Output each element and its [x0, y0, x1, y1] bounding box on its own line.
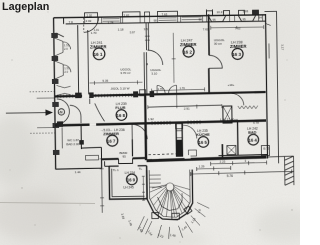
svg-text:3.5: 3.5 [144, 27, 149, 31]
svg-text:16 2: 16 2 [183, 50, 192, 55]
dim fan below bay right [178, 202, 209, 237]
stair inner well [166, 183, 174, 191]
lower block top stubs [109, 165, 146, 168]
svg-text:TL·1: TL·1 [113, 168, 119, 172]
window niche top A [209, 16, 226, 22]
dim row stairs right [197, 166, 231, 171]
leader line left 1 [30, 90, 55, 92]
room 168 circle [116, 110, 127, 121]
wall between room 161 and 162 [144, 23, 150, 95]
svg-text:7 8: 7 8 [69, 20, 74, 24]
door post corridor 2 [150, 91, 155, 97]
stair bay pilaster 3 [184, 206, 192, 214]
window top wall marks [85, 15, 263, 23]
svg-text:16 7: 16 7 [107, 139, 116, 144]
corridor dim ticks [148, 94, 222, 110]
left inner wall [78, 25, 79, 97]
small room post [79, 140, 84, 145]
stair hall left wall [144, 124, 147, 160]
bottom wall mid [102, 158, 147, 159]
door arc corridor up pair [157, 85, 177, 93]
svg-text:+10+: +10+ [227, 83, 234, 87]
svg-text:16 8: 16 8 [116, 113, 125, 118]
left wall pilaster 3 [52, 79, 59, 84]
dashed flight above stairs [148, 154, 178, 161]
svg-text:2.0: 2.0 [64, 70, 68, 74]
entrance door arc second [70, 105, 81, 123]
stair bay pilaster 2 [172, 213, 180, 219]
bottom wall right of stairs [147, 157, 267, 161]
dim row bottom right long [191, 169, 292, 176]
svg-text:1.92: 1.92 [148, 117, 154, 121]
dim line right section [211, 25, 264, 30]
zigzag hatch corridor right [238, 106, 258, 109]
svg-text:2.02: 2.02 [87, 13, 93, 17]
entrance door arc big [57, 99, 70, 124]
wall between room 162 and 163 [208, 14, 210, 94]
svg-text:10.21: 10.21 [216, 10, 224, 14]
svg-text:NE 40/70: NE 40/70 [150, 158, 163, 162]
svg-text:1.01: 1.01 [94, 28, 100, 32]
right dim tick [266, 23, 271, 58]
stair treads radial [150, 184, 191, 218]
stair bay inner line [149, 170, 190, 218]
svg-text:3.10: 3.10 [151, 72, 157, 76]
lower block inner [112, 168, 145, 196]
svg-text:TL: TL [139, 167, 143, 171]
wall 167 left [100, 147, 102, 159]
wc room 164 [261, 145, 269, 155]
dim fan below bay left [137, 216, 169, 239]
svg-text:2.02: 2.02 [86, 19, 92, 23]
leader line left 4 [30, 132, 55, 134]
leader line left 2 [37, 97, 55, 99]
vestibule circle small [58, 109, 64, 115]
scan streak [0, 203, 95, 204]
chimney block corridor right [223, 106, 232, 123]
chimney bump top 2 [122, 12, 140, 17]
svg-text:98: 98 [154, 19, 158, 23]
chimney bump top 7 [252, 10, 258, 15]
svg-text:7.62: 7.62 [203, 27, 209, 31]
stair bay pilaster 1 [152, 213, 159, 219]
stair bay outline [147, 170, 193, 221]
wall small rooms horizontal [81, 146, 101, 149]
svg-text:16 4: 16 4 [248, 138, 257, 143]
svg-text:84: 84 [259, 16, 263, 20]
svg-text:3.70 m²: 3.70 m² [120, 71, 130, 75]
chimney bump top 5 [223, 11, 229, 16]
door square corridor [140, 90, 146, 96]
left wall pilaster 6 [53, 150, 60, 155]
svg-text:5.78: 5.78 [253, 121, 259, 125]
svg-text:5.35: 5.35 [102, 79, 108, 83]
kitchen door arc [183, 125, 197, 139]
svg-text:95: 95 [122, 154, 126, 158]
corridor end wall [144, 95, 147, 124]
left secondary wall line [87, 30, 90, 95]
stair hall right wall [176, 122, 182, 157]
leader line left 3 [37, 126, 55, 128]
svg-text:3.82: 3.82 [124, 13, 130, 17]
chimney bump top 1 [84, 13, 97, 18]
left wall pilaster 1 [51, 33, 58, 38]
shaft bump [144, 12, 149, 17]
window niche left A [54, 38, 70, 56]
lower block outline [109, 166, 147, 200]
corridor bottom wall [55, 121, 266, 126]
svg-text:95: 95 [213, 18, 217, 22]
right boundary line [264, 11, 278, 163]
stair landing hexagon [158, 193, 183, 210]
bottom wall left block [56, 159, 102, 169]
svg-text:1.29: 1.29 [199, 164, 205, 168]
wire top outer wall [54, 15, 266, 18]
window sill marks mid [159, 18, 177, 21]
dim ticks left of bay [142, 176, 145, 200]
svg-text:5.97: 5.97 [130, 30, 136, 34]
kitchen stove [188, 150, 196, 156]
room 167 circle [107, 135, 118, 146]
corridor top wall gap entrance [82, 94, 89, 97]
dim line room 162 bottom [152, 87, 205, 92]
bottom wall room164 [218, 155, 267, 156]
svg-text:16 5: 16 5 [198, 140, 207, 145]
alcove mid [119, 158, 133, 163]
svg-text:16 1: 16 1 [94, 52, 103, 57]
svg-text:5.76: 5.76 [227, 174, 233, 178]
door post entrance 1 [75, 93, 82, 99]
door arc vestibule [90, 98, 105, 121]
svg-text:1.76: 1.76 [180, 86, 186, 90]
svg-text:1.83: 1.83 [242, 9, 248, 13]
hatched strip right [285, 156, 294, 185]
left wall pilaster 2 [52, 56, 59, 61]
window sill marks left [103, 17, 202, 21]
svg-text:7.62: 7.62 [235, 26, 241, 30]
wall segment 218 [221, 144, 223, 159]
left wall pilaster 5 [53, 123, 60, 128]
svg-text:1.05 37.00cm: 1.05 37.00cm [220, 117, 239, 121]
corridor bottom wall hatch [152, 120, 200, 125]
shaft above wall 162/163 [206, 9, 212, 15]
door arc room 163 [209, 55, 223, 68]
cabinet rect bottom left [85, 155, 98, 160]
washbasin room 164 [227, 145, 236, 154]
svg-text:2.0: 2.0 [64, 47, 68, 51]
corridor bottom wall gap [90, 123, 97, 126]
room 162 circle [183, 46, 194, 57]
entrance arrow left [6, 110, 52, 116]
niche diagonal top corner [56, 33, 64, 37]
room 167 door arc [132, 124, 147, 139]
svg-text:16 9: 16 9 [127, 177, 136, 182]
window niche left B [55, 61, 71, 79]
corridor inner line [148, 105, 222, 107]
dim line room 161 [89, 80, 142, 85]
gap posts bottom wall [152, 155, 158, 158]
svg-text:1.51: 1.51 [64, 66, 70, 70]
chimney bump top 3 [157, 11, 177, 16]
room 165 circle [198, 137, 209, 148]
wire top inner wall [64, 15, 266, 24]
svg-text:1.76: 1.76 [158, 87, 164, 91]
wall small rooms left vertical [80, 126, 82, 149]
dim line vertical left of block [99, 156, 104, 213]
wall room167 right [131, 139, 133, 156]
room 161 circle [93, 48, 105, 60]
door post corridor 1 [133, 91, 138, 97]
chimney bump top 4 [206, 11, 212, 16]
svg-text:1.78: 1.78 [108, 21, 114, 25]
window niche top B [239, 16, 256, 22]
svg-text:B.75: B.75 [263, 146, 270, 150]
svg-text:16 3: 16 3 [232, 52, 241, 57]
svg-text:LH 245: LH 245 [123, 185, 134, 189]
svg-text:BAD 2.30: BAD 2.30 [66, 142, 79, 146]
svg-text:Lageplan: Lageplan [2, 1, 49, 13]
lower block top jog [105, 161, 110, 166]
corridor top wall [55, 92, 266, 96]
left wall pilaster 4 [52, 102, 59, 107]
left outer wall [54, 18, 56, 170]
room 163 circle [232, 48, 243, 59]
svg-text:·N: ·N [59, 110, 63, 114]
window niche left C small [57, 85, 71, 95]
svg-text:1.44: 1.44 [75, 170, 81, 174]
svg-text:2.91: 2.91 [184, 107, 190, 111]
svg-text:7.63: 7.63 [161, 12, 167, 16]
door arc corridor 163 [232, 93, 244, 105]
door gap block A [57, 121, 63, 127]
svg-text:3.17: 3.17 [280, 44, 284, 50]
chimney bump top 6 [238, 10, 244, 15]
dim row bottom right upper [211, 161, 267, 166]
room 164 left wall [237, 121, 239, 155]
svg-text:30 cm: 30 cm [214, 42, 223, 46]
svg-text:JIGOL 3.10 W: JIGOL 3.10 W [111, 86, 130, 90]
room 169 circle [126, 174, 137, 185]
door arc top left porch [84, 17, 99, 32]
stair hall wall blocks [176, 140, 183, 157]
wall small rooms inner vertical [61, 127, 63, 148]
right outer wall [266, 14, 268, 158]
svg-text:2.23: 2.23 [220, 160, 226, 164]
door post entrance 2 [89, 92, 94, 98]
svg-text:1.51: 1.51 [64, 43, 70, 47]
svg-text:1.18: 1.18 [118, 27, 124, 31]
door arc room 162 [147, 50, 163, 65]
svg-text:98: 98 [199, 17, 203, 21]
dim line room 162 vertical [171, 33, 176, 83]
room 164 circle [248, 134, 259, 145]
corridor wall hatch band [58, 94, 132, 98]
stair treads straight [149, 175, 162, 187]
svg-text:95: 95 [243, 17, 247, 21]
